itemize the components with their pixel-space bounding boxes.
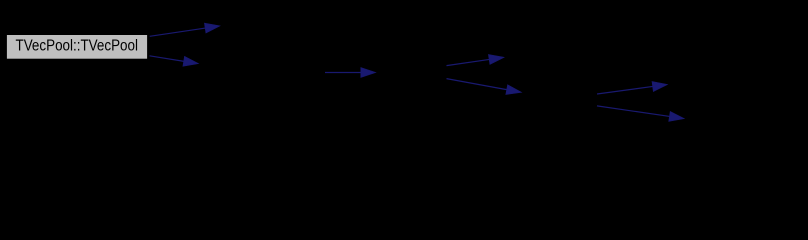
wire edge D->E (upper level-3): line — [447, 59, 492, 65]
wire edge F->H (lower level-4): line — [597, 106, 671, 117]
wire edge F->G (upper level-4): line — [597, 86, 655, 94]
wire edge C->D (level-2): line — [325, 72, 363, 74]
wire edge C->D (level-2): arrowhead — [361, 68, 376, 78]
wire edge A->B (upper level-1): line — [150, 28, 207, 37]
wire edge D->E (upper level-3): arrowhead — [488, 55, 504, 65]
wire edge A->C (lower level-1): line — [150, 56, 186, 62]
node A: TVecPool::TVecPool (highlighted grey box) — [6, 35, 147, 60]
wire edge D->F (lower level-3): line — [447, 79, 509, 90]
wire edge D->F (lower level-3): arrowhead — [506, 85, 522, 95]
wire edge A->B (upper level-1): arrowhead — [204, 23, 220, 33]
wire edge F->H (lower level-4): arrowhead — [669, 112, 685, 122]
svg-text:TVecPool::TVecPool: TVecPool::TVecPool — [16, 37, 139, 54]
wire edge A->C (lower level-1): arrowhead — [183, 56, 199, 66]
wire edge F->G (upper level-4): arrowhead — [652, 82, 668, 92]
